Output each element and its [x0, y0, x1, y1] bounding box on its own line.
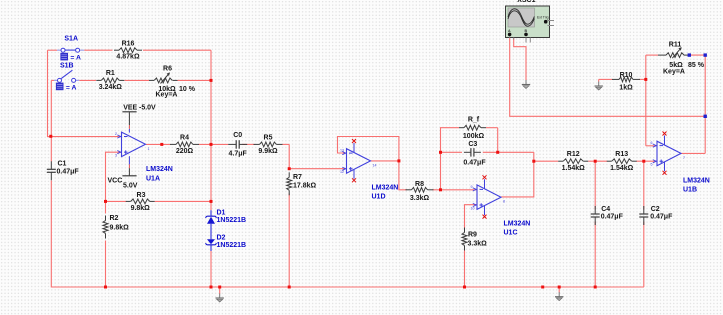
- svg-text:1.54kΩ: 1.54kΩ: [610, 165, 634, 172]
- junction: [541, 286, 544, 289]
- resistor R10: [612, 72, 640, 91]
- junction: [397, 159, 400, 162]
- wire: S1A to R16: [84, 49, 112, 51]
- svg-text:R_f: R_f: [468, 117, 480, 124]
- resistor R13: [607, 151, 637, 172]
- junction: [594, 160, 597, 163]
- capacitor C1: [47, 161, 80, 181]
- svg-text:D1: D1: [217, 209, 226, 216]
- wire: U1C output up to feedback: [501, 152, 534, 197]
- wire: R13 to U1B non-inverting input: [636, 160, 657, 162]
- svg-text:R3: R3: [137, 192, 146, 199]
- resistor R1: [96, 70, 124, 91]
- junction: [642, 160, 645, 163]
- svg-text:B: B: [525, 29, 528, 33]
- svg-text:7: 7: [683, 156, 685, 160]
- wire: ground stub center: [219, 287, 221, 294]
- svg-text:1.54kΩ: 1.54kΩ: [562, 165, 586, 172]
- wire endpoint: [704, 53, 707, 56]
- junction: [210, 79, 213, 82]
- wire: S1B left rail down to C1: [50, 80, 52, 161]
- junction: [210, 286, 213, 289]
- svg-text:Key=A: Key=A: [156, 92, 178, 99]
- potentiometer R11: [658, 41, 705, 75]
- svg-text:10: 10: [471, 207, 475, 211]
- resistor R4: [170, 134, 199, 155]
- svg-text:U1B: U1B: [683, 187, 697, 194]
- svg-text:Ext Trig: Ext Trig: [537, 16, 549, 20]
- svg-text:D2: D2: [217, 234, 226, 241]
- power VCC 5.0V: [108, 156, 138, 189]
- wire: to U1B inverting input: [646, 145, 657, 147]
- svg-text:1kΩ: 1kΩ: [619, 84, 633, 91]
- svg-text:17.8kΩ: 17.8kΩ: [293, 183, 317, 190]
- svg-text:1: 1: [148, 147, 150, 151]
- capacitor C0: [228, 132, 247, 158]
- wire endpoint: [688, 53, 691, 56]
- svg-text:8: 8: [503, 200, 505, 204]
- svg-text:VCC: VCC: [108, 178, 123, 185]
- svg-text:A: A: [508, 29, 511, 33]
- wire: scope channel A probe to U1B output: [510, 38, 706, 117]
- svg-text:6: 6: [651, 141, 653, 145]
- wire: node X vertical rail: [210, 50, 212, 210]
- svg-text:LM324N: LM324N: [504, 221, 531, 228]
- wire: scope channel A return to ground: [514, 38, 526, 80]
- wire: U1A non-inverting input rail: [106, 152, 122, 213]
- svg-text:Key=A: Key=A: [663, 69, 685, 76]
- junction: [496, 151, 499, 154]
- junction: [594, 286, 597, 289]
- svg-text:R6: R6: [163, 66, 172, 73]
- wire: U1A output to R4: [146, 143, 171, 145]
- ground (bottom centre): [216, 294, 224, 303]
- switch S1B: [54, 63, 79, 92]
- wire: R11 to output rail: [689, 54, 705, 56]
- resistor R5: [254, 134, 283, 155]
- op-amp U1A: [115, 132, 173, 183]
- wire: D2 to ground bus: [210, 251, 212, 287]
- wire: U1B output: [681, 152, 705, 154]
- op-amp U1B: [651, 132, 710, 194]
- wire: output rail vertical: [704, 55, 706, 153]
- wire: U1D feedback loop: [338, 137, 399, 161]
- wire: R4 to C0 via node X: [199, 143, 229, 145]
- wire: R11/R10 rail to U1B inverting input: [645, 55, 647, 146]
- junction: [218, 286, 221, 289]
- svg-text:0.47μF: 0.47μF: [463, 160, 486, 167]
- resistor R7: [287, 172, 317, 195]
- svg-text:9.8kΩ: 9.8kΩ: [131, 205, 151, 212]
- svg-text:0.47μF: 0.47μF: [57, 168, 80, 175]
- svg-text:0.47μF: 0.47μF: [601, 214, 624, 221]
- svg-text:9.8kΩ: 9.8kΩ: [110, 224, 130, 231]
- wire: U1D output: [371, 160, 399, 162]
- wire: node A to U1A inverting input: [51, 136, 122, 138]
- svg-text:14: 14: [373, 163, 377, 167]
- wire: node to C2: [643, 161, 645, 209]
- wire: rail to R3: [106, 200, 127, 202]
- resistor R2: [103, 215, 129, 239]
- svg-text:R16: R16: [122, 40, 135, 47]
- svg-text:1N5221B: 1N5221B: [217, 242, 247, 249]
- wire: C2 to ground bus: [643, 222, 645, 288]
- wire: to U1D non-inverting input: [289, 144, 346, 168]
- svg-text:U1A: U1A: [146, 176, 160, 183]
- junction: [210, 143, 213, 146]
- svg-text:4.7μF: 4.7μF: [229, 151, 248, 158]
- svg-text:4.87kΩ: 4.87kΩ: [116, 54, 140, 61]
- junction: [49, 135, 52, 138]
- junction: [160, 143, 163, 146]
- svg-text:LM324N: LM324N: [146, 166, 173, 173]
- svg-text:85 %: 85 %: [688, 62, 705, 69]
- wire: U1C non-inverting input to R9: [465, 205, 478, 228]
- wire: ground to R10: [599, 78, 613, 80]
- op-amp U1C: [471, 175, 531, 236]
- svg-text:S1B: S1B: [60, 63, 74, 70]
- resistor R12: [558, 151, 588, 172]
- power VEE -5.0V: [122, 105, 156, 133]
- svg-text:R13: R13: [615, 151, 628, 158]
- wire: R2 to ground bus: [105, 241, 107, 288]
- svg-text:1N5221B: 1N5221B: [217, 217, 247, 224]
- svg-text:S1A: S1A: [64, 35, 78, 42]
- svg-text:C2: C2: [651, 206, 660, 213]
- wire: C1 bottom / ground bus: [51, 181, 644, 288]
- svg-text:C1: C1: [58, 161, 67, 168]
- svg-text:12: 12: [340, 170, 344, 174]
- wire: C4 to ground bus: [594, 222, 596, 288]
- wire: left rail B to S1B: [51, 79, 54, 81]
- svg-text:R2: R2: [110, 215, 119, 222]
- wire: R_f right branch: [497, 128, 499, 153]
- svg-text:5.0V: 5.0V: [123, 183, 138, 190]
- wire: R_f to corner: [486, 127, 498, 129]
- svg-text:R9: R9: [468, 231, 477, 238]
- wire: R10 ground stub: [598, 79, 600, 81]
- wire endpoint: [704, 115, 707, 118]
- wire: rail to R11: [646, 54, 658, 56]
- junction: [288, 286, 291, 289]
- svg-text:0.47μF: 0.47μF: [650, 214, 673, 221]
- junction: [288, 167, 291, 170]
- svg-text:R8: R8: [415, 181, 424, 188]
- svg-text:C0: C0: [233, 132, 242, 139]
- svg-text:220Ω: 220Ω: [176, 148, 194, 155]
- svg-text:3.3kΩ: 3.3kΩ: [468, 241, 488, 248]
- wire: U1C output node to R12: [534, 160, 558, 162]
- svg-text:R12: R12: [567, 151, 580, 158]
- svg-text:2: 2: [115, 132, 117, 136]
- wire: R9 to ground bus: [464, 251, 466, 288]
- junction: [439, 188, 442, 191]
- junction: [104, 286, 107, 289]
- junction: [558, 286, 561, 289]
- svg-text:100kΩ: 100kΩ: [463, 133, 485, 140]
- svg-text:VEE: VEE: [123, 105, 137, 112]
- junction: [644, 78, 647, 81]
- junction: [463, 286, 466, 289]
- svg-text:C4: C4: [601, 206, 610, 213]
- junction: [439, 151, 442, 154]
- svg-text:R10: R10: [620, 72, 633, 79]
- svg-text:3.24kΩ: 3.24kΩ: [99, 84, 123, 91]
- svg-text:LM324N: LM324N: [372, 185, 399, 192]
- svg-text:9: 9: [471, 185, 473, 189]
- svg-text:= A: = A: [66, 84, 77, 91]
- zener diode D2 1N5221B: [205, 234, 246, 251]
- resistor R3: [126, 192, 155, 212]
- capacitor C2: [639, 206, 673, 225]
- wire: R16 to node X rail: [143, 49, 211, 51]
- resistor R9: [462, 228, 487, 251]
- svg-text:C3: C3: [468, 141, 477, 148]
- svg-text:10 %: 10 %: [179, 86, 196, 93]
- svg-text:U1C: U1C: [504, 230, 518, 237]
- wire: R12 to R13: [588, 160, 607, 162]
- wire: R6 to node X rail: [178, 79, 212, 81]
- resistor R_f: [459, 117, 486, 140]
- svg-text:= A: = A: [70, 55, 81, 62]
- capacitor C3: [463, 141, 486, 167]
- svg-text:XSC1: XSC1: [517, 0, 535, 4]
- switch S1A: [57, 35, 84, 61]
- resistor R16: [114, 40, 142, 60]
- svg-text:9.9kΩ: 9.9kΩ: [258, 148, 278, 155]
- junction: [210, 200, 213, 203]
- oscilloscope XSC1: [506, 0, 555, 43]
- zener diode D1 1N5221B: [205, 209, 246, 239]
- wire: ground stub right: [558, 287, 560, 293]
- svg-text:3.3kΩ: 3.3kΩ: [410, 195, 430, 202]
- potentiometer R6: [149, 66, 196, 99]
- svg-text:5: 5: [651, 163, 653, 167]
- wire: U1C feedback left branch: [441, 128, 460, 190]
- wire: R10 to rail: [639, 78, 646, 80]
- svg-text:13: 13: [340, 149, 344, 153]
- svg-text:R11: R11: [669, 41, 682, 48]
- wire: S1A left rail down to node A: [48, 50, 51, 136]
- capacitor C4: [591, 206, 624, 225]
- svg-text:3: 3: [115, 154, 117, 158]
- svg-text:R1: R1: [106, 70, 115, 77]
- ground (bottom right): [555, 292, 563, 301]
- svg-text:R4: R4: [180, 134, 189, 141]
- svg-text:-5.0V: -5.0V: [139, 105, 156, 112]
- junction: [104, 200, 107, 203]
- ground (scope): [522, 80, 530, 89]
- wire: R8 to U1C inverting input: [432, 189, 477, 191]
- svg-text:R5: R5: [264, 134, 273, 141]
- svg-text:LM324N: LM324N: [683, 178, 710, 185]
- wire: R1 to R6: [125, 79, 150, 81]
- wire: C3 to right branch: [483, 151, 534, 153]
- wire: U1D output down to R8: [399, 161, 407, 190]
- svg-text:U1D: U1D: [372, 194, 386, 201]
- wire: R7 to ground bus: [288, 194, 290, 288]
- wire: R3 to node X rail: [155, 200, 211, 202]
- wire: R5 out: [283, 143, 290, 145]
- wire: C0 to R5: [242, 143, 254, 145]
- wire: node to C4: [594, 161, 596, 209]
- resistor R8: [406, 181, 434, 202]
- op-amp U1D: [340, 139, 398, 201]
- wire: left rail to S1A: [48, 49, 58, 51]
- svg-text:R7: R7: [293, 174, 302, 181]
- junction: [532, 160, 535, 163]
- ground (R10): [595, 82, 603, 91]
- wire: feedback to C3: [441, 151, 463, 153]
- wire: S1B to R1: [79, 79, 96, 81]
